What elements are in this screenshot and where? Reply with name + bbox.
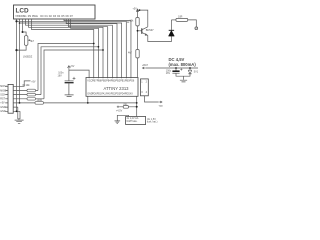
svg-text:RST: RST [0,98,5,101]
svg-text:100R: 100R [37,99,43,102]
svg-text:+5V: +5V [133,8,138,11]
svg-text:+BAT: +BAT [142,64,148,67]
svg-text:3x 10k: 3x 10k [22,84,30,87]
svg-text:NiMH aku.: NiMH aku. [127,120,138,123]
svg-text:MOSI: MOSI [0,85,6,88]
svg-text:10R: 10R [178,15,183,18]
svg-text:XX: XX [130,92,134,95]
svg-text:(max. 800mA): (max. 800mA) [169,62,197,67]
svg-text:BC547: BC547 [146,28,154,32]
svg-text:ATTINY 2313: ATTINY 2313 [104,86,130,91]
svg-text:5V1: 5V1 [194,71,199,74]
svg-text:4k7: 4k7 [30,40,35,43]
svg-text:16V: 16V [166,72,171,75]
svg-text:+5V: +5V [31,81,36,84]
svg-text:tuzk. bat.): tuzk. bat.) [147,121,158,124]
svg-text:GND: GND [0,106,6,109]
svg-text:poj.: poj. [124,103,128,106]
svg-text:MISO: MISO [0,89,6,92]
svg-text:+4,5V: +4,5V [116,109,123,112]
svg-text:LM35DZ: LM35DZ [23,56,33,59]
svg-text:RS: RS [28,15,32,18]
svg-text:+5V: +5V [0,102,5,105]
svg-text:SCK: SCK [0,93,5,96]
svg-text:16V: 16V [58,75,63,78]
svg-text:LCD: LCD [16,8,30,15]
svg-text:PD6: PD6 [130,80,135,83]
svg-text:vyp.: vyp. [159,104,164,107]
svg-text:4k7: 4k7 [128,52,133,55]
svg-text:GND: GND [0,110,6,113]
svg-text:+5V: +5V [70,65,75,68]
